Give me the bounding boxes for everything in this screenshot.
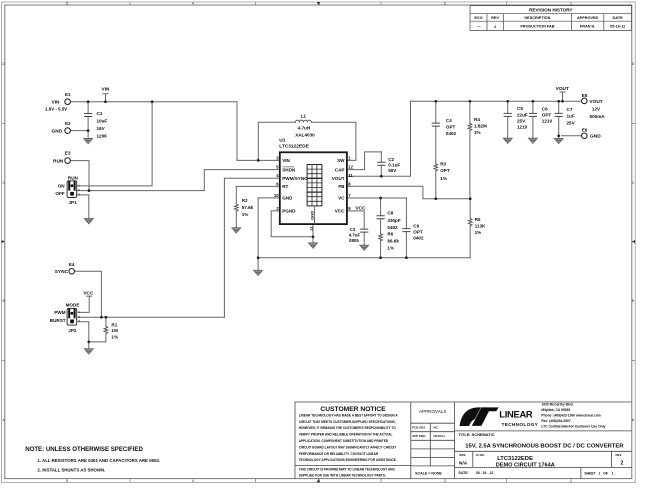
svg-text:TITLE: SCHEMATIC: TITLE: SCHEMATIC bbox=[459, 432, 495, 437]
svg-text:RUN: RUN bbox=[68, 175, 79, 180]
svg-text:B: B bbox=[632, 299, 634, 303]
svg-text:1uF: 1uF bbox=[567, 114, 575, 119]
svg-text:5: 5 bbox=[66, 2, 68, 6]
terminal E6 bbox=[582, 133, 588, 139]
node R4/R5 FB divider bbox=[469, 197, 472, 200]
ground below C5 bbox=[503, 138, 512, 143]
wire VOUT net label tick bbox=[560, 92, 565, 101]
svg-text:C9: C9 bbox=[413, 223, 419, 228]
svg-text:VOUT: VOUT bbox=[556, 86, 569, 92]
svg-text:2: 2 bbox=[444, 2, 446, 6]
wire pad pin13 stem bbox=[312, 224, 314, 243]
svg-text:1%: 1% bbox=[387, 246, 394, 251]
svg-text:16V: 16V bbox=[97, 126, 106, 131]
svg-text:05 - 16 - 12: 05 - 16 - 12 bbox=[476, 471, 493, 475]
svg-text:C2: C2 bbox=[388, 157, 394, 162]
wire GND pin to bottom rail bbox=[258, 198, 280, 270]
svg-text:VOUT: VOUT bbox=[332, 176, 345, 181]
svg-text:1%: 1% bbox=[242, 212, 249, 217]
svg-text:0402: 0402 bbox=[413, 235, 424, 240]
wire E3 RUN down to JP1 pin2 bbox=[71, 161, 90, 191]
svg-text:ECO: ECO bbox=[474, 16, 482, 20]
frame zone tick marks top bbox=[130, 2, 507, 5]
svg-text:VOUT: VOUT bbox=[589, 99, 602, 105]
node C1/VIN rail bbox=[87, 100, 90, 103]
wire R5 column bbox=[469, 199, 471, 258]
title block frame bbox=[295, 402, 632, 479]
svg-text:E6: E6 bbox=[582, 127, 588, 132]
svg-text:05-16-12: 05-16-12 bbox=[610, 25, 625, 29]
resistor R1 bbox=[104, 326, 108, 333]
svg-text:22uF: 22uF bbox=[517, 112, 528, 117]
svg-text:2. INSTALL SHUNTS AS SHOWN.: 2. INSTALL SHUNTS AS SHOWN. bbox=[37, 467, 105, 472]
ground below pad pin13 bbox=[308, 243, 317, 248]
frame zone digits bottom bbox=[66, 479, 572, 483]
wire C8 R6 series column bbox=[380, 198, 382, 258]
svg-text:VIN: VIN bbox=[282, 158, 290, 163]
svg-text:MODE: MODE bbox=[66, 303, 80, 308]
svg-text:LINEAR TECHNOLOGY HAS MADE A B: LINEAR TECHNOLOGY HAS MADE A BEST EFFORT… bbox=[299, 413, 399, 417]
svg-text:PRODUCTION FAB: PRODUCTION FAB bbox=[520, 25, 554, 29]
svg-text:REVISION HISTORY: REVISION HISTORY bbox=[529, 7, 572, 12]
svg-text:SIZE: SIZE bbox=[459, 453, 465, 457]
ground below C6 bbox=[528, 138, 537, 143]
capacitor C2 bbox=[378, 162, 385, 165]
svg-text:SHDN: SHDN bbox=[282, 167, 296, 172]
wire C2 column to VOUT row bbox=[380, 152, 382, 176]
wire C7 column to E6 row bbox=[558, 101, 560, 138]
svg-text:0402: 0402 bbox=[446, 131, 457, 136]
svg-text:R4: R4 bbox=[474, 117, 480, 122]
jumper JP2 pin numbers bbox=[78, 310, 80, 323]
svg-text:SCALE = NONE: SCALE = NONE bbox=[415, 471, 442, 475]
svg-text:25V: 25V bbox=[567, 121, 576, 126]
node C6 top bbox=[532, 100, 535, 103]
node junction dots bbox=[87, 100, 564, 343]
svg-text:LTC3122EDE: LTC3122EDE bbox=[497, 456, 533, 462]
svg-text:OPT: OPT bbox=[542, 112, 552, 117]
svg-text:C1: C1 bbox=[97, 111, 103, 116]
wire L1 right branch to SW pin bbox=[311, 122, 356, 160]
U1 pin SHDN overbar bbox=[282, 166, 294, 168]
node R1/JP2 pin3 bbox=[87, 341, 90, 344]
svg-text:500mA: 500mA bbox=[590, 114, 606, 119]
node C2/VOUT row bbox=[380, 175, 383, 178]
svg-text:U1: U1 bbox=[279, 138, 285, 144]
svg-text:12: 12 bbox=[348, 165, 353, 170]
svg-text:VERIFY PROPER AND RELIABLE OPE: VERIFY PROPER AND RELIABLE OPERATION IN … bbox=[299, 433, 393, 437]
svg-text:SUPPLIED FOR USE WITH LINEAR T: SUPPLIED FOR USE WITH LINEAR TECHNOLOGY … bbox=[299, 473, 386, 477]
resistor R4 bbox=[468, 123, 472, 130]
svg-text:GND: GND bbox=[309, 211, 314, 220]
ground below GND rail bbox=[254, 270, 263, 275]
node C8 top/VC bbox=[379, 197, 382, 200]
capacitor C1 bbox=[85, 114, 92, 117]
svg-text:86.6k: 86.6k bbox=[387, 238, 399, 243]
svg-text:50V: 50V bbox=[388, 168, 397, 173]
svg-text:OFF: OFF bbox=[55, 191, 64, 196]
svg-text:1.8V - 5.5V: 1.8V - 5.5V bbox=[45, 107, 67, 112]
wire PWM/SYNC staircase down to JP2 MODE row bbox=[224, 178, 279, 317]
wire R4 column bbox=[469, 101, 471, 198]
wire VCC T-symbol to JP2 pin1 bbox=[78, 296, 92, 312]
terminal E2 bbox=[65, 128, 71, 134]
svg-text:SW: SW bbox=[337, 158, 345, 163]
capacitor C7 bbox=[555, 113, 562, 116]
wire C6 column bbox=[532, 101, 534, 138]
wire JP2 MODE row bbox=[78, 316, 224, 318]
frame zone letters right bbox=[632, 62, 635, 422]
node SYNC/MODE row bbox=[100, 316, 103, 319]
node R3 bottom/FB bbox=[434, 197, 437, 200]
svg-text:DATE: DATE bbox=[613, 16, 624, 20]
svg-text:1: 1 bbox=[570, 2, 572, 6]
node C7 top bbox=[557, 100, 560, 103]
svg-text:4.7uF: 4.7uF bbox=[349, 232, 361, 237]
svg-text:E2: E2 bbox=[65, 121, 71, 126]
node VIN label tap bbox=[104, 100, 107, 103]
svg-text:0805: 0805 bbox=[349, 238, 359, 243]
svg-text:113K: 113K bbox=[475, 223, 486, 228]
svg-text:1M: 1M bbox=[111, 328, 118, 333]
svg-text:REV: REV bbox=[491, 16, 499, 20]
frame zone letters left bbox=[2, 62, 5, 422]
U1 pad GND stem inside bbox=[313, 206, 315, 224]
ground below C1 bbox=[84, 138, 93, 143]
resistor R5 bbox=[468, 219, 472, 226]
svg-text:4.7uH: 4.7uH bbox=[298, 126, 311, 131]
wire VCC pin to C3 bbox=[347, 211, 364, 245]
svg-text:JP2: JP2 bbox=[68, 328, 77, 333]
node C7/E6 bbox=[557, 134, 560, 137]
svg-text:VCC: VCC bbox=[355, 206, 366, 212]
svg-text:E3: E3 bbox=[65, 150, 71, 155]
resistor R2 bbox=[234, 204, 238, 211]
svg-text:C5: C5 bbox=[517, 106, 523, 111]
wire R2 bottom to ground bbox=[235, 211, 237, 228]
svg-text:1210: 1210 bbox=[517, 124, 528, 129]
svg-text:RUN: RUN bbox=[53, 158, 64, 164]
svg-text:THIS CIRCUIT IS PROPRIETARY TO: THIS CIRCUIT IS PROPRIETARY TO LINEAR TE… bbox=[299, 467, 396, 471]
svg-text:PCB DES.: PCB DES. bbox=[412, 426, 426, 430]
svg-text:C6: C6 bbox=[542, 106, 548, 111]
svg-text:REV.: REV. bbox=[616, 453, 623, 457]
svg-text:13: 13 bbox=[310, 227, 314, 231]
svg-text:12V: 12V bbox=[592, 107, 601, 112]
node pad pin13/PGND bbox=[312, 235, 315, 238]
svg-text:SYNC: SYNC bbox=[55, 269, 69, 275]
node C1/E2 GND bbox=[87, 129, 90, 132]
svg-text:Milpitas, CA 95035: Milpitas, CA 95035 bbox=[541, 408, 570, 412]
frame zone tick marks bottom bbox=[130, 479, 507, 483]
svg-text:5: 5 bbox=[66, 479, 68, 483]
inductor L1 bbox=[295, 120, 311, 122]
wire VOUT pin row to riser bbox=[347, 101, 411, 176]
svg-text:C3: C3 bbox=[350, 227, 356, 232]
ground below C7 bbox=[554, 138, 563, 143]
svg-text:C8: C8 bbox=[387, 211, 393, 216]
ground below R2 bbox=[232, 228, 241, 233]
svg-text:R3: R3 bbox=[440, 162, 446, 167]
node RUN/JP1 pin2 bbox=[88, 189, 91, 192]
svg-text:FRAN H.: FRAN H. bbox=[580, 25, 595, 29]
svg-text:PWM: PWM bbox=[54, 310, 65, 315]
capacitor C6 bbox=[529, 113, 536, 116]
svg-text:1. ALL RESISTORS ARE 0402 AND: 1. ALL RESISTORS ARE 0402 AND CAPACITORS… bbox=[37, 458, 160, 463]
node R4 top bbox=[469, 100, 472, 103]
svg-text:1: 1 bbox=[570, 479, 572, 483]
svg-text:IC NO.: IC NO. bbox=[476, 453, 485, 457]
capacitor C4 bbox=[432, 123, 439, 126]
svg-text:CIRCUIT THAT MEETS CUSTOMER-SU: CIRCUIT THAT MEETS CUSTOMER-SUPPLIED SPE… bbox=[299, 420, 396, 424]
frame zone tick marks right bbox=[632, 124, 635, 361]
U1 exposed pad hatch bbox=[307, 165, 322, 206]
svg-text:1%: 1% bbox=[111, 334, 118, 339]
node C9 bottom rail bbox=[405, 256, 408, 259]
svg-text:OPT: OPT bbox=[446, 124, 456, 129]
svg-text:APPLICATION. COMPONENT SUBSTIT: APPLICATION. COMPONENT SUBSTITUTION AND … bbox=[299, 439, 389, 443]
svg-text:B: B bbox=[3, 299, 5, 303]
op-amp U1 body (IC LTC3122EDE) bbox=[280, 152, 347, 224]
svg-text:ON: ON bbox=[58, 184, 66, 189]
node L1/VIN pin bbox=[257, 159, 260, 162]
svg-text:VCC: VCC bbox=[83, 290, 94, 296]
wire VIN rail from E1 to corner bbox=[71, 101, 238, 103]
revision history table bbox=[470, 6, 632, 31]
svg-text:JP1: JP1 bbox=[69, 200, 78, 205]
svg-text:DATE:: DATE: bbox=[459, 471, 469, 475]
svg-text:11: 11 bbox=[348, 173, 353, 178]
svg-text:LTC3122EDE: LTC3122EDE bbox=[279, 144, 309, 150]
svg-text:1206: 1206 bbox=[97, 133, 108, 138]
svg-text:TECHNOLOGY: TECHNOLOGY bbox=[502, 422, 539, 427]
wire C4 R3 column bbox=[435, 101, 437, 198]
svg-text:R1: R1 bbox=[111, 322, 117, 327]
svg-text:GND: GND bbox=[282, 196, 293, 201]
svg-text:C4: C4 bbox=[446, 118, 452, 123]
node C4 top bbox=[434, 100, 437, 103]
frame zone digits top bbox=[66, 2, 572, 6]
value label C3 bbox=[349, 227, 361, 243]
svg-text:R2: R2 bbox=[242, 198, 248, 203]
ground below JP2 bbox=[84, 349, 93, 354]
svg-text:BURST: BURST bbox=[50, 318, 66, 323]
wire VIN rail drop to VIN pin row bbox=[237, 102, 280, 161]
svg-text:4: 4 bbox=[192, 2, 194, 6]
terminal E1 bbox=[65, 99, 71, 105]
wire FB pin jog bbox=[347, 186, 470, 198]
capacitor C3 bbox=[361, 229, 368, 232]
svg-text:RT: RT bbox=[282, 184, 288, 189]
svg-text:2: 2 bbox=[494, 25, 496, 29]
svg-text:FB: FB bbox=[338, 184, 345, 189]
svg-text:10: 10 bbox=[274, 193, 279, 198]
svg-text:APPROVALS: APPROVALS bbox=[419, 409, 447, 414]
svg-text:OPT: OPT bbox=[413, 229, 423, 234]
wire RT pin to R2 bbox=[236, 186, 279, 204]
ground below JP1 bbox=[84, 219, 93, 224]
svg-text:VCC: VCC bbox=[335, 209, 345, 214]
svg-text:PWM/SYNC: PWM/SYNC bbox=[282, 176, 308, 181]
node VOUT label tap bbox=[561, 100, 564, 103]
svg-text:NOTE: UNLESS OTHERWISE SPECIFI: NOTE: UNLESS OTHERWISE SPECIFIED bbox=[25, 446, 143, 453]
resistor R6 bbox=[379, 234, 383, 241]
svg-text:Phone: (408)432-1900 www.line: Phone: (408)432-1900 www.linear.com bbox=[541, 414, 600, 418]
svg-text:E5: E5 bbox=[582, 93, 588, 98]
svg-text:N/A: N/A bbox=[459, 460, 468, 466]
ground below C3 bbox=[360, 245, 369, 250]
svg-text:2: 2 bbox=[621, 461, 624, 467]
frame zone tick marks left bbox=[2, 124, 5, 361]
node GND rail left bbox=[257, 256, 260, 259]
wire C1 column bbox=[87, 102, 89, 139]
svg-text:CUSTOMER NOTICE: CUSTOMER NOTICE bbox=[320, 406, 386, 413]
svg-text:DEMO CIRCUIT 1764A: DEMO CIRCUIT 1764A bbox=[496, 463, 555, 469]
svg-text:XAL4030: XAL4030 bbox=[295, 133, 315, 138]
svg-text:1%: 1% bbox=[475, 230, 482, 235]
revision history table text bbox=[529, 7, 572, 12]
svg-text:2: 2 bbox=[444, 479, 446, 483]
wire JP1 pin2 to SHDN staircase bbox=[77, 170, 280, 191]
wire JP1 pin3 to ground bbox=[77, 195, 89, 219]
wire E2 to C1 bbox=[71, 130, 89, 132]
svg-text:R6: R6 bbox=[387, 231, 393, 236]
svg-text:1%: 1% bbox=[440, 176, 447, 181]
svg-text:1630 McCarthy Blvd.: 1630 McCarthy Blvd. bbox=[541, 403, 573, 407]
svg-text:Fax: (408)434-0507: Fax: (408)434-0507 bbox=[541, 419, 570, 423]
svg-text:E1: E1 bbox=[65, 92, 71, 97]
svg-text:R5: R5 bbox=[475, 217, 481, 222]
svg-text:E4: E4 bbox=[69, 262, 75, 267]
svg-text:3: 3 bbox=[318, 479, 320, 483]
capacitor C5 bbox=[504, 113, 511, 116]
svg-text:57.6k: 57.6k bbox=[242, 205, 254, 210]
capacitor C8 bbox=[377, 216, 384, 219]
wire CAP pin jog to C2 bbox=[347, 152, 381, 170]
svg-text:1210: 1210 bbox=[542, 118, 553, 123]
wire E4 SYNC down to MODE row bbox=[75, 271, 102, 317]
wire VIN net label tick bbox=[103, 94, 108, 102]
jumper JP1 pin numbers bbox=[78, 184, 80, 197]
wire PGND loop to pad pin13 node bbox=[271, 211, 313, 237]
node JP1 pin1 riser bbox=[151, 100, 154, 103]
svg-text:VIN: VIN bbox=[101, 86, 110, 92]
wire C5 column bbox=[507, 101, 509, 138]
svg-text:330pF: 330pF bbox=[387, 218, 400, 223]
svg-text:0402: 0402 bbox=[387, 225, 398, 230]
svg-text:15V, 2.5A SYNCHRONOUS BOOST DC: 15V, 2.5A SYNCHRONOUS BOOST DC / DC CONV… bbox=[465, 443, 624, 449]
resistor R3 bbox=[434, 164, 438, 171]
svg-text:VC: VC bbox=[338, 196, 345, 201]
wire VC pin row bbox=[347, 197, 407, 199]
jumper JP1 body bbox=[67, 181, 77, 198]
svg-text:SHEET 1 OF 1: SHEET 1 OF 1 bbox=[584, 472, 613, 476]
svg-text:3: 3 bbox=[318, 2, 320, 6]
svg-text:LTC Confidential-For Customer: LTC Confidential-For Customer Use Only bbox=[541, 425, 605, 429]
svg-text:FRAN H.: FRAN H. bbox=[434, 434, 446, 438]
svg-text:—: — bbox=[477, 24, 481, 28]
svg-text:APPROVED: APPROVED bbox=[577, 16, 599, 20]
svg-text:GND: GND bbox=[52, 128, 63, 134]
svg-text:CAP: CAP bbox=[335, 167, 345, 172]
terminal E5 bbox=[582, 98, 588, 104]
svg-text:25V: 25V bbox=[517, 118, 526, 123]
svg-text:APP ENG.: APP ENG. bbox=[412, 434, 426, 438]
capacitor C9 bbox=[403, 229, 410, 232]
svg-text:1%: 1% bbox=[474, 130, 481, 135]
wire bottom ground rail bbox=[258, 257, 470, 259]
svg-text:TECHNOLOGY APPLICATIONS ENGINE: TECHNOLOGY APPLICATIONS ENGINEERING FOR … bbox=[299, 458, 397, 462]
svg-text:0.1uF: 0.1uF bbox=[388, 163, 400, 168]
svg-text:HOWEVER, IT REMAINS THE CUSTOM: HOWEVER, IT REMAINS THE CUSTOMER'S RESPO… bbox=[299, 426, 397, 430]
svg-text:PGND: PGND bbox=[282, 209, 296, 214]
svg-text:OPT: OPT bbox=[440, 168, 450, 173]
node C8 bottom rail bbox=[379, 256, 382, 259]
Linear Technology logo bbox=[460, 407, 499, 426]
wire JP1 pin1 to VIN rail bbox=[77, 102, 152, 186]
node C5 top bbox=[506, 100, 509, 103]
wire VOUT top rail bbox=[411, 100, 582, 102]
svg-text:VIN: VIN bbox=[52, 99, 61, 105]
wire C9 column bbox=[405, 198, 407, 258]
svg-text:PERFORMANCE OR RELIABILITY. CO: PERFORMANCE OR RELIABILITY. CONTACT LINE… bbox=[299, 452, 379, 456]
jumper JP2 body bbox=[67, 308, 77, 325]
wire L1 left branch bbox=[258, 122, 295, 160]
svg-text:DESCRIPTION: DESCRIPTION bbox=[524, 16, 550, 20]
pin number 3 bbox=[274, 155, 354, 211]
node R1 top bbox=[105, 316, 108, 319]
svg-text:4: 4 bbox=[192, 479, 194, 483]
wire E6 to C7 bbox=[562, 135, 582, 137]
svg-text:C7: C7 bbox=[567, 107, 573, 112]
svg-text:CIRCUIT BOARD LAYOUT MAY SIGNI: CIRCUIT BOARD LAYOUT MAY SIGNIFICANTLY A… bbox=[299, 445, 397, 449]
svg-text:GND: GND bbox=[590, 134, 601, 140]
terminal E4 bbox=[69, 269, 75, 275]
svg-text:1.82M: 1.82M bbox=[474, 124, 487, 129]
svg-text:10uF: 10uF bbox=[97, 119, 108, 124]
logo address block bbox=[541, 403, 605, 429]
svg-text:L1: L1 bbox=[301, 113, 307, 118]
wire R1 bottom jog to JP2 pin3 bbox=[89, 334, 106, 342]
terminal E3 bbox=[65, 158, 71, 164]
wire JP2 pin3 down bbox=[78, 322, 89, 349]
svg-text:LINEAR: LINEAR bbox=[499, 409, 533, 420]
wire R1 top stub bbox=[105, 317, 107, 326]
